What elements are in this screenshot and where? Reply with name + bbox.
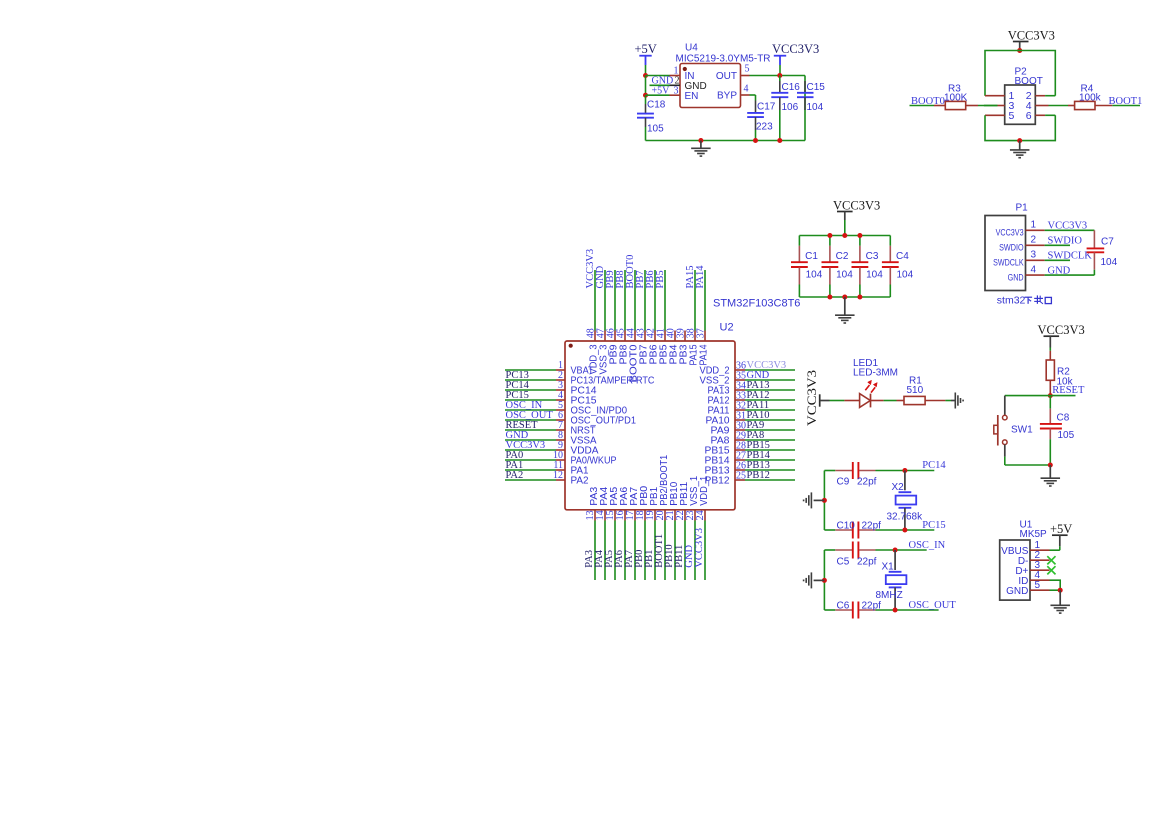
resistor R3 — [934, 84, 978, 110]
svg-text:VCC3V3: VCC3V3 — [805, 370, 819, 426]
svg-text:C5: C5 — [837, 557, 850, 568]
svg-text:223: 223 — [756, 122, 773, 133]
capacitor C16 — [771, 76, 800, 141]
net label PC14 — [922, 460, 946, 471]
svg-text:VCC3V3: VCC3V3 — [996, 228, 1024, 239]
wire — [505, 419, 556, 421]
svg-text:24: 24 — [695, 510, 706, 520]
wire — [745, 459, 795, 461]
capacitor C17 — [747, 95, 776, 141]
wire — [945, 400, 951, 402]
svg-text:104: 104 — [836, 270, 853, 281]
svg-text:C16: C16 — [782, 82, 801, 93]
capacitor C8 — [1040, 396, 1075, 465]
wire — [745, 439, 795, 441]
text stm32 download port — [997, 295, 1052, 307]
net label VCC3V3 — [506, 440, 546, 451]
op-amp U4 MIC5219 regulator — [676, 43, 771, 108]
connector P1 SWD header — [985, 203, 1028, 291]
svg-text:MK5P: MK5P — [1020, 529, 1048, 540]
pin 36 VDD_2 — [700, 361, 747, 377]
wire — [745, 479, 795, 481]
net label PB12 — [747, 470, 770, 481]
svg-text:+5V: +5V — [1050, 522, 1072, 536]
svg-text:22pf: 22pf — [857, 557, 877, 568]
net label PB13 — [747, 460, 770, 471]
net label PA9 — [747, 420, 765, 431]
wire — [745, 429, 795, 431]
wire — [694, 270, 696, 331]
net label PB9 — [605, 270, 616, 288]
wire — [664, 270, 666, 331]
svg-text:106: 106 — [782, 102, 799, 113]
capacitor C10 — [824, 520, 881, 538]
pin 5 OUT — [716, 64, 750, 83]
ground (U4) — [691, 141, 711, 157]
svg-text:VCC3V3: VCC3V3 — [772, 42, 819, 56]
svg-text:PA14: PA14 — [699, 344, 710, 365]
svg-text:P1: P1 — [1016, 203, 1029, 214]
wire SWDIO — [1045, 244, 1070, 246]
svg-text:GND: GND — [1006, 586, 1028, 597]
net label GND — [652, 76, 674, 87]
power VCC3V3 (reset) — [1038, 323, 1085, 351]
svg-text:X1: X1 — [882, 561, 895, 572]
ground (P2) — [1010, 141, 1029, 158]
svg-text:2: 2 — [1031, 235, 1037, 246]
IC U2 STM32F103C8T6 — [565, 297, 800, 510]
wire — [745, 449, 795, 451]
net label PB14 — [747, 450, 771, 461]
svg-text:5: 5 — [745, 64, 750, 75]
pin 17 PA7 — [625, 486, 640, 520]
resistor R2 — [1046, 351, 1073, 396]
wire pin3 row — [646, 94, 670, 96]
capacitor C3 — [852, 236, 884, 298]
net label PB15 — [747, 440, 770, 451]
wire — [604, 270, 606, 331]
pin 3 PC14 — [556, 380, 597, 397]
svg-text:X2: X2 — [892, 482, 905, 493]
svg-text:105: 105 — [1058, 430, 1075, 441]
wire — [505, 479, 556, 481]
svg-text:C18: C18 — [647, 100, 666, 111]
svg-text:GND: GND — [1048, 266, 1071, 277]
svg-text:OSC_OUT: OSC_OUT — [909, 600, 957, 611]
node C17 junction — [753, 138, 758, 143]
wire GND — [1045, 274, 1095, 276]
wire OSC_IN — [876, 549, 927, 551]
pin 2 GND — [670, 76, 707, 92]
node junctions top bus — [827, 233, 862, 238]
net label PA14 — [695, 265, 706, 289]
wire — [645, 76, 647, 96]
capacitor C2 — [822, 236, 854, 298]
svg-text:SWDCLK: SWDCLK — [1048, 251, 1093, 262]
node USB ground junction — [1058, 588, 1063, 593]
power +5V (U4 input) — [635, 42, 657, 65]
wire VCC3V3 — [1045, 229, 1095, 231]
pin 47 VSS_3 — [595, 328, 609, 374]
node X1 bottom junction — [893, 608, 898, 613]
capacitor C5 — [824, 542, 876, 568]
wire — [704, 270, 706, 331]
node X2 top junction — [902, 468, 907, 473]
wire — [684, 521, 686, 581]
net label BOOT0 — [625, 255, 636, 289]
wire — [674, 521, 676, 581]
svg-text:PC14: PC14 — [922, 460, 946, 471]
svg-text:1: 1 — [1031, 220, 1037, 231]
net label VCC3V3 — [747, 360, 787, 371]
power VCC3V3 (P2) — [1008, 28, 1055, 50]
net label GND — [506, 430, 529, 441]
svg-text:25: 25 — [736, 471, 746, 482]
pin 2 D- — [1018, 550, 1050, 567]
net label SWDIO — [1048, 236, 1083, 247]
net label PA12 — [747, 390, 770, 401]
pin 2 — [1026, 90, 1056, 102]
net label RESET — [1052, 385, 1085, 396]
svg-text:104: 104 — [807, 102, 824, 113]
svg-text:C15: C15 — [807, 82, 826, 93]
wire — [884, 400, 897, 402]
pin 30 PA9 — [711, 421, 747, 437]
wire — [505, 429, 556, 431]
svg-text:5: 5 — [1009, 110, 1015, 122]
pin 5 OSC_IN/PD0 — [556, 400, 627, 417]
capacitor C4 — [882, 236, 914, 298]
power VCC3V3 (C1-C4) — [833, 198, 880, 235]
wire — [634, 270, 636, 331]
svg-text:C8: C8 — [1057, 412, 1070, 423]
svg-text:C1: C1 — [805, 251, 818, 262]
net label BOOT1 — [1109, 96, 1143, 107]
pin 44 BOOT0 — [625, 328, 639, 382]
capacitor C15 — [797, 81, 825, 113]
wire VBUS — [1050, 549, 1060, 551]
node RESET junction — [1048, 393, 1053, 398]
net label PA1 — [506, 460, 524, 471]
svg-text:stm32: stm32 — [997, 295, 1026, 307]
wire bottom bus — [799, 296, 890, 298]
net label GND — [747, 370, 770, 381]
node X2 bottom junction — [902, 528, 907, 533]
svg-text:PA2: PA2 — [571, 476, 589, 487]
svg-text:VDD_1: VDD_1 — [699, 475, 710, 505]
net label GND — [1048, 266, 1071, 277]
pin 21 PB10 — [665, 481, 680, 520]
pin 48 VDD_3 — [585, 328, 599, 374]
pin 29 PA8 — [711, 431, 747, 447]
svg-text:C17: C17 — [757, 101, 776, 112]
net label PB1 — [644, 550, 655, 568]
net label PA10 — [747, 410, 770, 421]
power +5V (USB) — [1050, 522, 1072, 550]
pin 39 PB3 — [675, 328, 689, 364]
svg-text:8MHZ: 8MHZ — [876, 590, 903, 601]
wire top loop — [985, 51, 1055, 96]
wire — [745, 369, 795, 371]
wire ID to GND — [1050, 580, 1061, 590]
resistor R1 — [897, 376, 946, 405]
wire — [505, 459, 556, 461]
svg-text:104: 104 — [806, 270, 823, 281]
wire BOOT0 — [910, 105, 998, 107]
svg-text:VCC3V3: VCC3V3 — [1008, 28, 1055, 42]
svg-text:SWDIO: SWDIO — [999, 243, 1024, 254]
net label PB6 — [645, 270, 656, 288]
wire left rail X1 — [823, 550, 825, 610]
pin 38 PA15 — [685, 328, 699, 365]
ground (LED row, sideways) — [951, 393, 963, 409]
net label GND — [684, 545, 695, 568]
crystal X2 32.768k — [887, 471, 924, 531]
node +5V junction pin3 — [643, 93, 648, 98]
svg-text:VCC3V3: VCC3V3 — [1048, 221, 1088, 232]
net label OSC_IN — [506, 400, 543, 411]
wire VCC3V3 rail right — [750, 76, 806, 141]
net label PB8 — [615, 270, 626, 288]
svg-text:C6: C6 — [837, 600, 850, 611]
pin 42 PB6 — [645, 328, 659, 364]
wire — [664, 521, 666, 581]
wire — [654, 270, 656, 331]
pin 3 D+ — [1015, 560, 1049, 577]
svg-text:104: 104 — [1101, 257, 1118, 268]
no-connect X on D- — [1047, 556, 1055, 564]
pin 13 PA3 — [585, 486, 600, 520]
pin 1 VBAT — [556, 360, 594, 377]
pin 27 PB14 — [705, 451, 747, 467]
svg-text:U4: U4 — [685, 43, 698, 54]
svg-text:C7: C7 — [1101, 236, 1114, 247]
node X2 ground junction — [822, 498, 827, 503]
capacitor C9 — [824, 462, 876, 488]
ground (X1, sideways) — [804, 572, 825, 588]
net label BOOT0 — [911, 96, 945, 107]
resistor R4 — [1068, 84, 1112, 110]
svg-text:LED-3MM: LED-3MM — [853, 367, 898, 378]
capacitor C6 — [824, 600, 881, 618]
wire — [624, 521, 626, 581]
wire — [654, 521, 656, 581]
wire — [505, 389, 556, 391]
svg-text:22pf: 22pf — [857, 477, 877, 488]
net label GND — [595, 265, 606, 288]
svg-text:C2: C2 — [836, 251, 849, 262]
net label OSC_OUT — [909, 600, 957, 611]
svg-text:5: 5 — [1035, 580, 1041, 591]
svg-text:VCC3V3: VCC3V3 — [833, 198, 880, 212]
net label PA4 — [594, 549, 605, 567]
wire — [745, 399, 795, 401]
svg-text:C9: C9 — [837, 477, 850, 488]
pin 24 VDD_1 — [695, 475, 710, 520]
wire — [745, 469, 795, 471]
net label PA11 — [747, 400, 770, 411]
switch SW1 — [994, 396, 1033, 465]
wire — [745, 419, 795, 421]
wire — [505, 449, 556, 451]
pin 43 PB7 — [635, 328, 649, 364]
wire — [1005, 464, 1051, 466]
wire — [745, 409, 795, 411]
wire — [650, 84, 670, 86]
svg-text:PB5: PB5 — [655, 270, 666, 288]
power VCC3V3 (U4 output) — [772, 42, 819, 76]
ground (reset) — [1041, 465, 1061, 486]
svg-text:3: 3 — [674, 85, 679, 96]
wire — [594, 270, 596, 331]
wire PC14 — [876, 470, 935, 472]
svg-text:GND: GND — [1008, 272, 1024, 283]
svg-text:104: 104 — [897, 270, 914, 281]
wire RESET — [1005, 395, 1076, 397]
net label PB5 — [655, 270, 666, 288]
pin 37 PA14 — [695, 328, 709, 365]
wire SWDCLK — [1045, 259, 1070, 261]
wire pin1 row — [646, 75, 670, 77]
svg-text:SW1: SW1 — [1011, 425, 1033, 436]
wire — [505, 439, 556, 441]
pin 1 IN — [670, 66, 695, 83]
svg-text:BYP: BYP — [717, 91, 737, 102]
pin 4 — [1026, 100, 1068, 112]
svg-text:PA2: PA2 — [506, 470, 524, 481]
net label PC15 — [922, 520, 945, 531]
net label VCC3V3 — [694, 528, 705, 568]
net label OSC_IN — [909, 540, 946, 551]
wire left rail X2 — [823, 471, 825, 531]
connector P2 BOOT — [1005, 67, 1043, 125]
pin 1 VCC3V3 — [996, 220, 1045, 239]
svg-text:6: 6 — [1026, 110, 1032, 122]
pin 34 PA13 — [708, 381, 747, 397]
LED LED1 LED-3MM — [844, 358, 898, 408]
wire — [614, 521, 616, 581]
node VCC3V3 junction — [1017, 48, 1022, 53]
net label PB11 — [674, 545, 685, 568]
svg-text:32.768k: 32.768k — [887, 512, 924, 523]
wire — [604, 521, 606, 581]
svg-text:VCC3V3: VCC3V3 — [694, 528, 705, 568]
pin 25 PB12 — [705, 471, 747, 487]
connector U1 MK5P — [1000, 519, 1047, 600]
node +5V junction pin1 — [643, 73, 648, 78]
pin 3 — [984, 100, 1015, 112]
svg-text:SWDCLK: SWDCLK — [993, 258, 1024, 269]
pin 1 — [985, 90, 1015, 102]
pin 2 SWDIO — [999, 235, 1045, 254]
pin 7 NRST — [556, 420, 596, 437]
svg-text:EN: EN — [685, 91, 699, 102]
power VCC3V3 (LED, rotated) — [805, 370, 830, 426]
pin 4 ID — [1018, 570, 1049, 587]
svg-text:510: 510 — [907, 385, 924, 396]
svg-text:3: 3 — [1031, 250, 1037, 261]
pin 46 PB9 — [605, 328, 619, 364]
pin 11 PA1 — [553, 460, 588, 477]
pin 18 PB0 — [635, 485, 650, 520]
wire — [614, 270, 616, 331]
no-connect X on D+ — [1047, 566, 1055, 574]
wire — [830, 400, 845, 402]
wire — [644, 521, 646, 581]
svg-text:VCC3V3: VCC3V3 — [1038, 323, 1085, 337]
pin 26 PB13 — [705, 461, 747, 477]
node OUT junction — [777, 73, 782, 78]
pin 12 PA2 — [553, 470, 589, 487]
pin 4 GND — [1008, 265, 1045, 284]
pin 4 PC15 — [556, 390, 597, 407]
net label VCC3V3 — [1048, 221, 1088, 232]
wire — [505, 379, 556, 381]
net label PC13 — [506, 370, 529, 381]
svg-text:OSC_IN: OSC_IN — [909, 540, 946, 551]
net label PB10 — [664, 544, 675, 567]
pin 32 PA11 — [708, 401, 747, 417]
svg-text:105: 105 — [647, 124, 664, 135]
pin 3 EN — [670, 85, 699, 102]
net label SWDCLK — [1048, 251, 1093, 262]
net label PA0 — [506, 450, 524, 461]
pin 9 VDDA — [556, 440, 599, 457]
wire — [634, 521, 636, 581]
svg-text:4: 4 — [744, 84, 749, 95]
net label PA15 — [685, 266, 696, 289]
net label BOOT1 — [654, 534, 665, 568]
node ground junction P2 — [1017, 138, 1022, 143]
pin 6 — [1026, 110, 1056, 122]
net label PA2 — [506, 470, 524, 481]
pin 6 OSC_OUT/PD1 — [556, 410, 636, 427]
svg-text:STM32F103C8T6: STM32F103C8T6 — [713, 297, 800, 309]
wire — [505, 469, 556, 471]
net label PC15 — [506, 390, 529, 401]
net label PA3 — [584, 550, 595, 568]
net label VCC3V3 — [585, 249, 596, 289]
crystal X1 8MHZ — [876, 550, 907, 610]
node X1 ground junction — [822, 578, 827, 583]
pin 35 VSS_2 — [700, 371, 747, 387]
net label PA6 — [614, 550, 625, 568]
wire BOOT1 — [1112, 105, 1140, 107]
wire — [644, 270, 646, 331]
pin 33 PA12 — [708, 391, 747, 407]
wire — [505, 399, 556, 401]
wire — [645, 65, 647, 76]
svg-text:C10: C10 — [837, 520, 856, 531]
pin 16 PA6 — [615, 486, 630, 520]
wire — [745, 379, 795, 381]
svg-text:SWDIO: SWDIO — [1048, 236, 1083, 247]
svg-text:PA14: PA14 — [695, 265, 706, 289]
svg-text:PC15: PC15 — [922, 520, 945, 531]
pin 5 — [985, 110, 1015, 122]
ground (X2, sideways) — [804, 492, 825, 508]
pin 41 PB5 — [655, 328, 669, 364]
pin 31 PA10 — [706, 411, 747, 427]
pin 28 PB15 — [705, 441, 747, 457]
svg-text:C4: C4 — [896, 251, 909, 262]
net label PA8 — [747, 430, 765, 441]
wire — [505, 369, 556, 371]
wire — [745, 389, 795, 391]
svg-text:RESET: RESET — [1052, 385, 1085, 396]
pin 1 VBUS — [1001, 540, 1049, 557]
wire bottom loop — [985, 115, 1055, 140]
